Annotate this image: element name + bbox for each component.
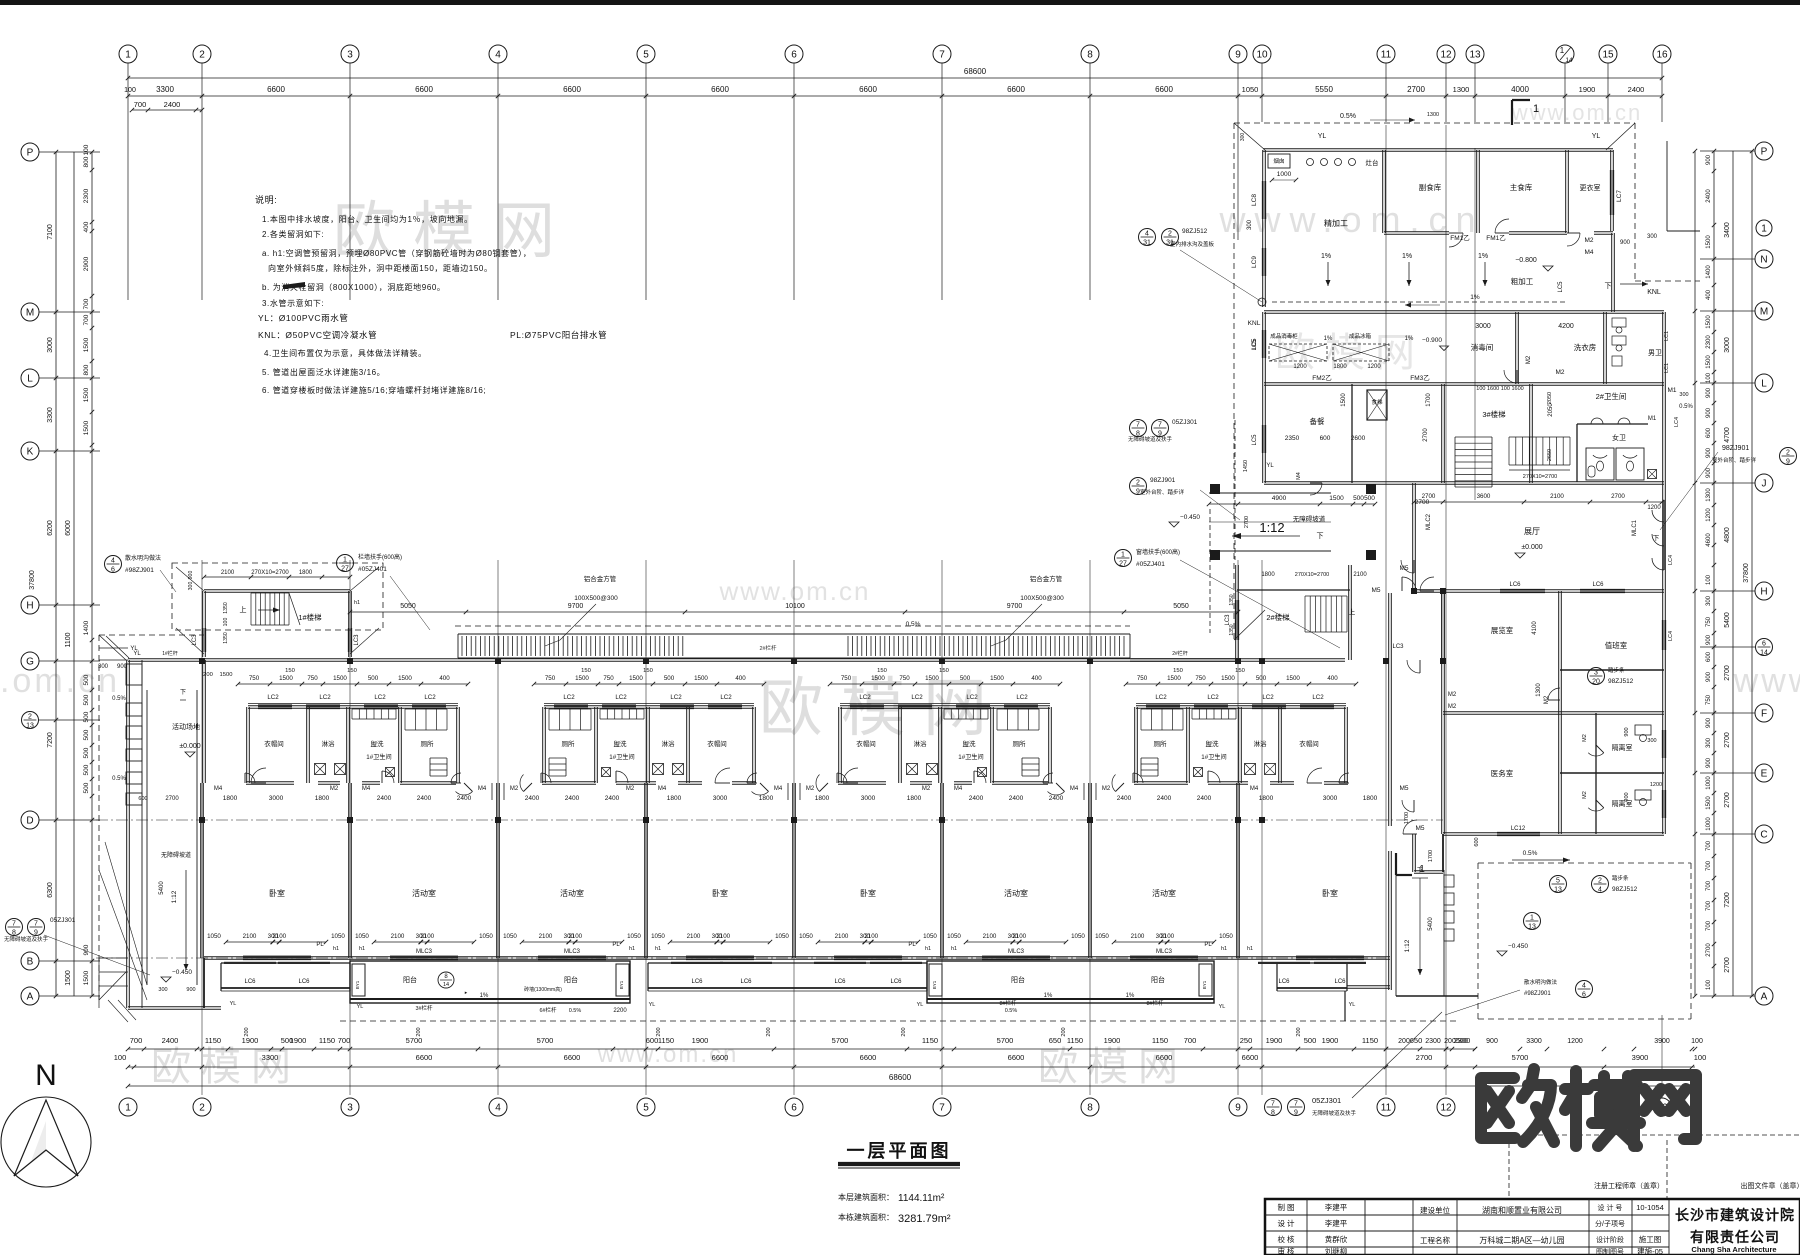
svg-text:1#栏杆: 1#栏杆 [162, 650, 178, 657]
svg-text:KNL：Ø50PVC空调冷凝水管: KNL：Ø50PVC空调冷凝水管 [258, 330, 377, 340]
svg-text:900: 900 [1706, 671, 1712, 682]
cluster doors [381, 771, 383, 783]
svg-text:500: 500 [83, 674, 90, 685]
svg-text:M5: M5 [1415, 825, 1424, 832]
svg-text:#98ZJ901: #98ZJ901 [1524, 991, 1551, 997]
svg-text:BY1: BY1 [355, 980, 360, 989]
svg-text:M5: M5 [1371, 587, 1380, 594]
svg-text:6. 管道穿楼板时做法详建施5/16;穿墙螺杆封堵详建施8: 6. 管道穿楼板时做法详建施5/16;穿墙螺杆封堵详建施8/16; [262, 385, 486, 395]
svg-text:7: 7 [1294, 1101, 1298, 1108]
left chain mid ticks [90, 150, 94, 154]
svg-text:YL: YL [357, 1004, 364, 1010]
svg-text:8: 8 [1087, 50, 1093, 61]
svg-text:1500: 1500 [65, 970, 72, 986]
kitchen chimney box 烟囱 [1268, 154, 1290, 168]
svg-text:±0.000: ±0.000 [179, 743, 200, 750]
svg-text:250: 250 [1240, 1036, 1253, 1045]
svg-text:700: 700 [130, 1036, 143, 1045]
svg-text:1400: 1400 [83, 620, 90, 635]
svg-text:3300: 3300 [1526, 1038, 1542, 1045]
svg-text:www.om.cn: www.om.cn [719, 576, 871, 606]
central stair flight [1508, 437, 1510, 465]
svg-text:厕所: 厕所 [421, 739, 435, 748]
svg-text:600: 600 [1706, 427, 1712, 438]
cluster divider walls [306, 707, 308, 783]
annotation 4/31 2/31 98ZJ512 kitchen leader [1139, 229, 1156, 246]
svg-text:1800: 1800 [299, 570, 313, 576]
east corridor wall x=1390 with M5 door gap [1388, 593, 1390, 826]
svg-text:900: 900 [117, 664, 128, 670]
NE corner boundary wall [1666, 141, 1668, 231]
svg-text:栏墙扶手(600高): 栏墙扶手(600高) [358, 553, 402, 561]
svg-text:500: 500 [664, 675, 675, 682]
kitchen wing dashed canopy outline [1234, 122, 1635, 124]
svg-text:2300: 2300 [1425, 1038, 1441, 1045]
svg-text:5400: 5400 [1724, 612, 1731, 628]
svg-text:1300: 1300 [1427, 112, 1439, 118]
stair 1#楼梯 dashed box [172, 563, 383, 630]
svg-text:98ZJ901: 98ZJ901 [1150, 477, 1176, 484]
svg-text:MLC3: MLC3 [1008, 949, 1025, 955]
svg-text:KNL: KNL [1248, 320, 1261, 327]
svg-text:LC2: LC2 [424, 694, 436, 701]
svg-text:1050: 1050 [627, 933, 641, 940]
svg-text:h1: h1 [925, 946, 931, 952]
svg-text:700: 700 [1706, 920, 1712, 931]
right stacked bubble 6/14 [1756, 639, 1773, 656]
top overall dimension line 68600 [128, 77, 1662, 79]
svg-text:2400: 2400 [1009, 795, 1024, 802]
svg-text:1500: 1500 [279, 675, 293, 682]
svg-text:M2: M2 [1582, 791, 1588, 799]
svg-text:700: 700 [1706, 900, 1712, 911]
svg-text:1300: 1300 [1453, 85, 1470, 94]
svg-text:PL: PL [908, 942, 916, 948]
svg-text:6600: 6600 [860, 1053, 877, 1062]
svg-text:1300: 1300 [1706, 488, 1712, 502]
svg-text:阳台: 阳台 [1011, 975, 1025, 984]
svg-text:室外台阶、踏步详: 室外台阶、踏步详 [1712, 456, 1757, 464]
svg-text:YL：Ø100PVC雨水管: YL：Ø100PVC雨水管 [258, 313, 348, 323]
svg-text:M2: M2 [1544, 695, 1550, 704]
southwest corner entry steps [99, 957, 128, 959]
svg-text:A: A [27, 992, 34, 1003]
svg-text:LC4: LC4 [1668, 631, 1674, 641]
svg-text:6600: 6600 [415, 85, 433, 94]
svg-text:2700: 2700 [1724, 732, 1731, 748]
annotation 4/6 散水 98ZJ901 [105, 556, 122, 573]
svg-text:LC6: LC6 [834, 979, 846, 985]
svg-text:h1: h1 [354, 600, 360, 606]
svg-text:LC6: LC6 [1509, 582, 1521, 588]
svg-text:医务室: 医务室 [1491, 768, 1514, 778]
main entrance plaza columns [1210, 484, 1220, 494]
svg-text:P: P [27, 148, 34, 159]
svg-text:7: 7 [939, 50, 945, 61]
svg-text:0.5%: 0.5% [906, 621, 921, 628]
svg-text:1500: 1500 [83, 420, 90, 435]
svg-text:3281.79m²: 3281.79m² [898, 1213, 951, 1225]
svg-text:2100: 2100 [835, 933, 849, 940]
svg-text:15: 15 [1602, 50, 1614, 61]
svg-text:下: 下 [1605, 282, 1612, 290]
svg-text:8: 8 [1087, 1103, 1093, 1114]
svg-text:下: 下 [1317, 532, 1324, 540]
svg-text:6600: 6600 [1008, 1053, 1025, 1062]
wash trough [943, 709, 945, 719]
north arrow glyph [14, 1100, 78, 1176]
svg-text:0.5%: 0.5% [112, 776, 126, 782]
svg-text:淋浴: 淋浴 [1254, 739, 1268, 748]
svg-text:M2: M2 [330, 786, 339, 792]
svg-text:N: N [1760, 255, 1767, 266]
svg-text:成品消毒柜: 成品消毒柜 [1270, 332, 1298, 340]
C-row south wall with LC12 [1443, 832, 1664, 834]
svg-text:男卫: 男卫 [1648, 349, 1662, 357]
svg-text:窗墙扶手(600高): 窗墙扶手(600高) [1136, 548, 1180, 556]
east end wall of main wing [1441, 591, 1443, 660]
svg-text:−0.800: −0.800 [1515, 257, 1537, 264]
svg-text:2#楼梯: 2#楼梯 [1266, 612, 1290, 622]
svg-text:1%: 1% [1324, 336, 1333, 342]
svg-text:值班室: 值班室 [1605, 640, 1628, 650]
main wing B-row axis line [96, 957, 1386, 959]
svg-text:2100: 2100 [568, 933, 582, 940]
svg-text:BY1: BY1 [1202, 980, 1207, 989]
svg-text:300: 300 [1247, 219, 1253, 230]
svg-text:工程名称: 工程名称 [1420, 1235, 1450, 1245]
svg-text:4700: 4700 [1724, 427, 1731, 443]
section cut mark 1 top [1511, 100, 1513, 125]
title block rows [1265, 1214, 1669, 1216]
svg-text:600: 600 [138, 796, 147, 802]
svg-text:700: 700 [338, 1036, 351, 1045]
dims row above south wall 1050 2100 300 2100 1050 [226, 941, 326, 943]
svg-text:6600: 6600 [564, 1053, 581, 1062]
svg-text:6600: 6600 [1156, 1053, 1173, 1062]
bottom dims row 2 (6600 bays) [128, 1066, 1695, 1068]
corridor double doors between clusters at even grids [464, 783, 473, 792]
svg-text:2100: 2100 [983, 933, 997, 940]
svg-text:1800: 1800 [667, 795, 682, 802]
dashed leader lines above title block [1508, 1135, 1510, 1199]
svg-text:LC6: LC6 [1592, 582, 1604, 588]
svg-text:100: 100 [1706, 574, 1712, 585]
svg-text:BY1: BY1 [619, 980, 624, 989]
svg-text:4600: 4600 [1706, 533, 1712, 547]
svg-text:3300: 3300 [156, 85, 174, 94]
svg-text:900: 900 [1620, 240, 1631, 246]
svg-text:LC4: LC4 [1674, 417, 1680, 427]
svg-text:2100: 2100 [221, 570, 235, 576]
svg-text:650: 650 [1049, 1036, 1062, 1045]
svg-text:13: 13 [1469, 50, 1481, 61]
svg-text:YL: YL [1349, 1002, 1356, 1008]
svg-text:1150: 1150 [1362, 1036, 1378, 1045]
stair 1# walls [202, 591, 204, 657]
svg-text:270X10=2700: 270X10=2700 [1523, 474, 1557, 480]
kitchen L-row wall [1264, 382, 1664, 384]
svg-text:2100: 2100 [1012, 933, 1026, 940]
svg-text:2300: 2300 [1706, 335, 1712, 349]
svg-text:05ZJ301: 05ZJ301 [1312, 1096, 1341, 1105]
wc stall banks [404, 709, 406, 730]
west facade wall with windows [126, 660, 128, 1008]
top segment dimension line [128, 95, 1662, 97]
svg-text:900: 900 [1706, 154, 1712, 165]
west wing east wall x=204 [202, 660, 204, 783]
kitchen roof diagonal hips [1234, 123, 1265, 150]
svg-text:#05ZJ401: #05ZJ401 [358, 566, 387, 573]
svg-text:2100: 2100 [243, 933, 257, 940]
wash basins [1591, 418, 1603, 424]
top grid bubble 1/14 single circle with slash [1556, 45, 1574, 63]
svg-text:MLC3: MLC3 [416, 949, 433, 955]
svg-text:750: 750 [1706, 616, 1712, 627]
svg-text:98ZJ512: 98ZJ512 [1182, 228, 1208, 235]
svg-text:6300: 6300 [47, 882, 54, 898]
svg-text:1000: 1000 [1277, 171, 1292, 178]
svg-text:衣帽间: 衣帽间 [264, 739, 284, 748]
svg-text:1700: 1700 [1426, 393, 1432, 407]
svg-text:600: 600 [1474, 837, 1480, 846]
svg-text:1050: 1050 [331, 933, 345, 940]
svg-text:700: 700 [1706, 880, 1712, 891]
svg-text:M2: M2 [1448, 704, 1457, 710]
svg-text:7200: 7200 [1724, 892, 1731, 908]
cluster bottom wall with door openings [246, 781, 294, 783]
svg-text:200: 200 [1398, 1038, 1410, 1045]
svg-text:1800: 1800 [223, 795, 238, 802]
wash trough [1191, 709, 1193, 719]
south end wall segment east of balcony [1347, 985, 1390, 987]
top grid lines [127, 63, 129, 300]
svg-text:图制图号: 图制图号 [1596, 1247, 1624, 1255]
svg-text:1.本图中排水坡度，阳台、卫生间均为1％，坡向地漏。: 1.本图中排水坡度，阳台、卫生间均为1％，坡向地漏。 [262, 214, 473, 224]
interior grid axis lines main wing [201, 560, 203, 1095]
svg-text:6: 6 [111, 567, 115, 574]
svg-text:MLC2: MLC2 [1426, 513, 1432, 530]
svg-text:灶台: 灶台 [1366, 158, 1379, 167]
cluster bottom wall with door openings [1134, 781, 1138, 783]
svg-text:主食库: 主食库 [1510, 182, 1533, 192]
svg-text:4000: 4000 [1511, 85, 1529, 94]
cluster doors [973, 771, 975, 783]
svg-text:5700: 5700 [832, 1036, 849, 1045]
svg-text:厕所: 厕所 [1013, 739, 1027, 748]
svg-text:本栋建筑面积：: 本栋建筑面积： [838, 1212, 894, 1222]
svg-text:LC2: LC2 [911, 694, 923, 701]
svg-text:100X500@300: 100X500@300 [1020, 595, 1064, 602]
svg-text:副食库: 副食库 [1419, 182, 1442, 192]
svg-text:3000: 3000 [1475, 323, 1491, 330]
svg-text:阳台: 阳台 [403, 975, 417, 984]
svg-text:500: 500 [83, 747, 90, 758]
svg-text:制 图: 制 图 [1277, 1202, 1294, 1212]
svg-text:14: 14 [1565, 57, 1573, 64]
svg-text:阳台: 阳台 [564, 975, 578, 984]
svg-text:M2: M2 [1555, 369, 1564, 376]
svg-text:2300: 2300 [83, 188, 90, 203]
svg-text:J: J [1762, 479, 1767, 490]
svg-text:LC6: LC6 [890, 979, 902, 985]
svg-text:500: 500 [1304, 1036, 1317, 1045]
svg-text:下: 下 [180, 689, 186, 696]
svg-text:9: 9 [1235, 1103, 1241, 1114]
svg-text:1150: 1150 [1067, 1036, 1083, 1045]
ramp side blocks [1444, 875, 1454, 887]
svg-text:1200: 1200 [1367, 364, 1381, 370]
svg-text:1050: 1050 [1071, 933, 1085, 940]
svg-text:M2: M2 [626, 786, 635, 792]
svg-text:98ZJ901: 98ZJ901 [1722, 445, 1749, 452]
svg-text:#05ZJ401: #05ZJ401 [1136, 561, 1165, 568]
svg-text:500: 500 [83, 694, 90, 705]
balcony box 1 with railing [350, 961, 630, 1003]
svg-text:6600: 6600 [1242, 1053, 1259, 1062]
svg-text:6600: 6600 [267, 85, 285, 94]
svg-text:www.om.cn: www.om.cn [1511, 100, 1642, 125]
svg-text:700: 700 [83, 298, 90, 309]
entrance dims 4900 1500 [1209, 503, 1375, 505]
svg-text:万科城二期A区—幼儿园: 万科城二期A区—幼儿园 [1479, 1235, 1564, 1245]
svg-text:LC3: LC3 [1392, 644, 1404, 650]
svg-text:2400: 2400 [525, 795, 540, 802]
svg-text:刘继柳: 刘继柳 [1325, 1246, 1348, 1255]
svg-text:2400: 2400 [162, 1036, 179, 1045]
svg-text:2: 2 [1598, 878, 1602, 885]
svg-text:1200: 1200 [1706, 508, 1712, 522]
svg-text:1150: 1150 [319, 1036, 335, 1045]
SE block bottom walls [1414, 870, 1443, 872]
svg-text:500: 500 [368, 675, 379, 682]
svg-text:卧室: 卧室 [269, 888, 285, 898]
stair 2#楼梯 walls [1235, 565, 1237, 660]
svg-text:YL: YL [917, 1002, 924, 1008]
svg-text:100: 100 [1706, 372, 1712, 383]
svg-text:衣帽间: 衣帽间 [1299, 739, 1319, 748]
svg-text:4: 4 [495, 50, 501, 61]
svg-text:05ZJ301: 05ZJ301 [1172, 419, 1198, 426]
svg-text:900: 900 [1624, 727, 1630, 736]
svg-text:100X500@300: 100X500@300 [574, 595, 618, 602]
svg-text:FM1乙: FM1乙 [1486, 234, 1506, 242]
svg-text:700: 700 [83, 314, 90, 325]
svg-text:1050: 1050 [1242, 85, 1259, 94]
svg-text:±0.000: ±0.000 [1521, 544, 1542, 551]
svg-text:1200: 1200 [1567, 1038, 1583, 1045]
cluster side walls [1134, 707, 1136, 783]
svg-text:LC7: LC7 [1616, 190, 1623, 202]
svg-text:有限责任公司: 有限责任公司 [1690, 1229, 1780, 1245]
svg-text:2700: 2700 [1611, 493, 1625, 500]
svg-text:M2: M2 [1102, 786, 1111, 792]
svg-text:7: 7 [34, 921, 38, 928]
svg-text:1#卫生间: 1#卫生间 [1201, 753, 1226, 761]
svg-text:900: 900 [186, 987, 195, 993]
svg-text:卧室: 卧室 [1322, 888, 1338, 898]
svg-text:LC2: LC2 [720, 694, 732, 701]
svg-text:本层建筑面积：: 本层建筑面积： [838, 1192, 894, 1202]
svg-text:2#栏杆: 2#栏杆 [759, 644, 777, 652]
svg-text:5050: 5050 [1173, 603, 1189, 610]
svg-text:900: 900 [1706, 757, 1712, 768]
svg-text:0.5%: 0.5% [112, 696, 126, 702]
svg-text:500: 500 [83, 782, 90, 793]
balcony dashed canopy line below [340, 1020, 1460, 1022]
svg-text:2100: 2100 [864, 933, 878, 940]
svg-text:LC3: LC3 [1225, 614, 1231, 626]
svg-text:9: 9 [34, 930, 38, 937]
svg-text:1800: 1800 [1363, 795, 1378, 802]
svg-text:6600: 6600 [712, 1053, 729, 1062]
svg-text:盥洗: 盥洗 [1206, 739, 1220, 748]
svg-text:LC2: LC2 [615, 694, 627, 701]
svg-text:1%: 1% [1321, 253, 1331, 260]
svg-text:2#栏杆: 2#栏杆 [1172, 650, 1188, 657]
svg-text:3000: 3000 [47, 337, 54, 353]
svg-text:KNL: KNL [1647, 289, 1661, 296]
svg-text:M1: M1 [1667, 387, 1676, 394]
svg-text:淋浴: 淋浴 [914, 739, 928, 748]
svg-text:2400: 2400 [377, 795, 392, 802]
svg-text:PL: PL [612, 942, 620, 948]
svg-text:建施-05: 建施-05 [1637, 1246, 1663, 1255]
toilet stalls with wc [1586, 448, 1614, 480]
svg-text:1450: 1450 [1243, 460, 1249, 472]
svg-text:1700: 1700 [1404, 812, 1410, 824]
cluster divider walls [898, 707, 900, 783]
svg-text:2700: 2700 [1724, 957, 1731, 973]
svg-text:3400: 3400 [1724, 222, 1731, 238]
svg-text:1500: 1500 [694, 675, 708, 682]
svg-text:2700: 2700 [1724, 665, 1731, 681]
interior grid axis lines right wing [1385, 125, 1387, 1095]
svg-text:10-1054: 10-1054 [1636, 1203, 1664, 1212]
svg-text:K: K [27, 447, 34, 458]
ramp left arrow [1232, 535, 1300, 537]
svg-text:0.5%: 0.5% [569, 1008, 582, 1014]
svg-text:厕所: 厕所 [1154, 739, 1168, 748]
svg-text:M: M [1760, 307, 1768, 318]
section cut mark 1 bottom [1395, 853, 1397, 875]
svg-text:1500: 1500 [575, 675, 589, 682]
svg-text:踏步条: 踏步条 [1612, 874, 1629, 882]
washroom cluster at x=350 [248, 705, 458, 707]
balcony fence LC6 segments [221, 962, 350, 964]
svg-text:5. 管道出屋面泛水详建施3/16。: 5. 管道出屋面泛水详建施3/16。 [262, 367, 385, 377]
svg-text:1400: 1400 [1706, 265, 1712, 279]
storeroom dividing walls [1382, 150, 1384, 233]
svg-text:1350: 1350 [223, 602, 229, 614]
svg-text:h1: h1 [655, 946, 661, 952]
svg-text:6000: 6000 [65, 520, 72, 536]
svg-text:M2: M2 [1526, 355, 1532, 364]
连廊 walls west of stair2 [1130, 658, 1237, 660]
svg-text:设计阶段: 设计阶段 [1596, 1235, 1624, 1244]
svg-text:68600: 68600 [889, 1073, 912, 1082]
svg-text:淋浴: 淋浴 [662, 739, 676, 748]
svg-text:1: 1 [1560, 46, 1565, 55]
svg-text:0.5%: 0.5% [1523, 850, 1538, 857]
svg-text:2100: 2100 [420, 933, 434, 940]
accessible ramp 无障碍坡道 [146, 690, 148, 985]
svg-text:散水明沟做法: 散水明沟做法 [125, 554, 161, 562]
svg-text:6: 6 [1762, 641, 1766, 648]
NW corner hip diagonals [106, 636, 129, 658]
svg-text:6: 6 [1582, 992, 1586, 999]
svg-text:M2: M2 [510, 786, 519, 792]
